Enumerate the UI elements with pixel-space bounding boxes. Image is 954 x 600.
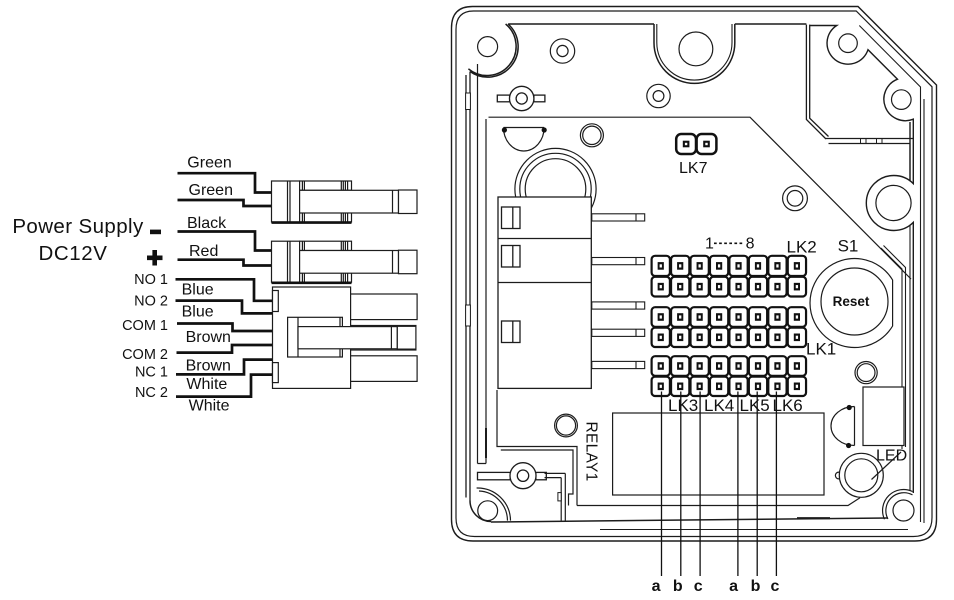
svg-text:b: b <box>673 578 683 595</box>
wire green 2 <box>178 200 272 206</box>
svg-text:Power Supply: Power Supply <box>12 215 144 238</box>
thumbscrew top-left <box>497 86 545 110</box>
svg-text:Brown: Brown <box>186 329 231 346</box>
leader line a <box>661 392 663 577</box>
svg-text:Black: Black <box>187 215 227 232</box>
wire NO1 blue <box>176 279 273 301</box>
svg-text:White: White <box>189 398 230 415</box>
enclosure floor wall left <box>466 72 470 501</box>
component box right <box>863 387 904 446</box>
svg-text:LK6: LK6 <box>773 396 803 415</box>
enclosure floor wall top with screw scallop and U-cutout <box>468 24 806 83</box>
wire NO2 blue <box>176 301 273 314</box>
LED leader line <box>872 452 902 480</box>
floor bottom line <box>491 518 888 522</box>
svg-text:NO 1: NO 1 <box>134 272 168 288</box>
wire NC1 white <box>176 360 273 375</box>
screw top-left corner <box>478 37 498 57</box>
svg-text:NC 2: NC 2 <box>135 385 168 401</box>
screw ringed top-middle <box>647 84 670 107</box>
svg-text:COM 2: COM 2 <box>122 347 168 363</box>
PCB edge dark segment <box>485 428 487 458</box>
bottom-left gusset arcs <box>477 488 511 521</box>
wire black <box>178 232 272 251</box>
microphone half-disc top <box>502 127 547 151</box>
LED D1 <box>835 453 883 497</box>
right wall second line <box>909 144 911 492</box>
svg-text:Reset: Reset <box>833 294 870 309</box>
jumper LK7 <box>676 134 716 154</box>
thumbscrew bottom-left <box>478 463 547 489</box>
U-cutout inner line <box>657 24 732 80</box>
partition wall ticks <box>861 139 883 145</box>
wall notch left upper <box>466 93 471 110</box>
pin numbering 1-8 <box>705 236 755 253</box>
wire NC2 white <box>176 375 273 397</box>
bottom-right screw scallop <box>883 490 913 520</box>
svg-text:LK5: LK5 <box>740 396 770 415</box>
svg-text:DC12V: DC12V <box>38 242 107 265</box>
jumper block LK1 <box>652 307 806 347</box>
wire COM2 brown <box>177 345 273 353</box>
wall around terminal block bottom <box>497 390 577 506</box>
floor bottom thick segment <box>797 517 830 519</box>
screw bottom-right <box>893 500 914 521</box>
boss circle in U-cutout <box>679 32 713 66</box>
leader line b <box>756 392 758 577</box>
screw bottom-left <box>478 501 498 521</box>
connector plug J2 black-red pair <box>272 241 418 283</box>
chamber screw lower <box>892 90 912 110</box>
leader line b <box>680 392 682 577</box>
small ring beside microphone <box>580 124 603 147</box>
svg-text:a: a <box>652 578 661 595</box>
svg-text:White: White <box>186 376 227 393</box>
jumper block LK2 <box>652 256 806 297</box>
enclosure outer outline <box>452 7 937 542</box>
chamber screw upper <box>839 34 858 53</box>
terminal block pins <box>592 214 645 369</box>
connector block J3 six-wire <box>273 287 418 388</box>
svg-text:LK4: LK4 <box>704 396 734 415</box>
polarity plus <box>147 250 163 266</box>
floor corner arc bottom-left <box>470 501 491 522</box>
bottom wall top line <box>600 529 908 531</box>
leader line c <box>699 392 701 577</box>
chamber inner wall with screw scallops <box>810 26 914 494</box>
svg-text:LED: LED <box>876 448 907 465</box>
polarity minus <box>150 230 161 235</box>
svg-text:LK1: LK1 <box>806 340 836 359</box>
pushbutton S1 outer <box>810 259 893 348</box>
wall notch left lower <box>466 305 471 326</box>
screw ringed above LED <box>855 362 877 384</box>
leader line a <box>737 392 739 577</box>
right side big screw <box>876 185 911 220</box>
PCB outline <box>478 64 912 506</box>
svg-text:Green: Green <box>189 182 233 199</box>
svg-text:Green: Green <box>187 155 231 172</box>
svg-text:c: c <box>770 578 779 595</box>
screw ringed middle-right <box>783 186 808 211</box>
jumper block LK3-LK6 <box>652 356 806 396</box>
relay RELAY1 body <box>613 413 824 495</box>
svg-text:Blue: Blue <box>182 282 214 299</box>
terminal block rear body <box>498 197 591 388</box>
enclosure second outline <box>456 11 932 537</box>
svg-text:1: 1 <box>705 236 714 253</box>
wire red <box>178 260 272 266</box>
svg-text:8: 8 <box>746 236 755 253</box>
svg-text:b: b <box>751 578 761 595</box>
half-disc beside box <box>831 405 855 448</box>
svg-text:NC 1: NC 1 <box>135 364 168 380</box>
svg-text:LK3: LK3 <box>668 396 698 415</box>
svg-text:LK2: LK2 <box>787 238 817 257</box>
svg-text:COM 1: COM 1 <box>122 318 168 334</box>
connector plug J1 green pair <box>272 181 418 223</box>
screw ringed top-left <box>550 39 574 63</box>
chamber partition wall top-right <box>806 25 913 144</box>
pushbutton S1 inner <box>821 268 888 335</box>
svg-text:S1: S1 <box>838 237 859 256</box>
sounder rings <box>515 148 596 229</box>
svg-text:LK7: LK7 <box>679 160 708 177</box>
svg-text:c: c <box>694 578 703 595</box>
svg-text:NO 2: NO 2 <box>134 293 168 309</box>
right wall top line <box>859 26 924 524</box>
L-wall notch <box>558 493 561 501</box>
svg-text:Blue: Blue <box>182 304 214 321</box>
svg-text:Brown: Brown <box>186 358 231 375</box>
svg-text:a: a <box>729 578 738 595</box>
wall beside reset <box>881 246 906 450</box>
svg-text:RELAY1: RELAY1 <box>583 422 600 482</box>
leader line c <box>775 392 777 577</box>
ring above RELAY1 label <box>555 414 578 437</box>
L-shaped wall bottom-left <box>545 473 566 520</box>
wire green 1 <box>178 173 272 192</box>
wire COM1 brown <box>177 324 273 332</box>
svg-text:Red: Red <box>189 243 218 260</box>
